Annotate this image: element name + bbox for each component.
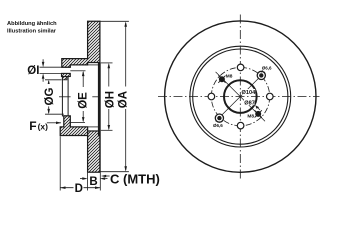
svg-text:B: B [89, 176, 97, 188]
svg-text:ØH: ØH [105, 91, 117, 108]
svg-text:D: D [75, 183, 83, 195]
svg-text:C (MTH): C (MTH) [110, 171, 160, 186]
svg-text:Ø87: Ø87 [244, 100, 255, 106]
svg-text:ØG: ØG [44, 88, 56, 106]
svg-text:M8: M8 [247, 114, 254, 120]
svg-text:ØI: ØI [27, 65, 39, 77]
svg-text:F: F [29, 119, 36, 133]
svg-text:Ø104: Ø104 [242, 90, 257, 96]
svg-text:Abbildung ähnlich: Abbildung ähnlich [7, 21, 57, 27]
svg-text:ØE: ØE [78, 92, 90, 109]
svg-text:Illustration similar: Illustration similar [7, 28, 57, 34]
svg-text:Ø6,6: Ø6,6 [262, 66, 272, 71]
svg-text:(x): (x) [38, 121, 49, 131]
svg-text:M8: M8 [226, 74, 233, 80]
svg-text:Ø6,6: Ø6,6 [213, 123, 223, 128]
svg-text:ØA: ØA [117, 91, 129, 108]
